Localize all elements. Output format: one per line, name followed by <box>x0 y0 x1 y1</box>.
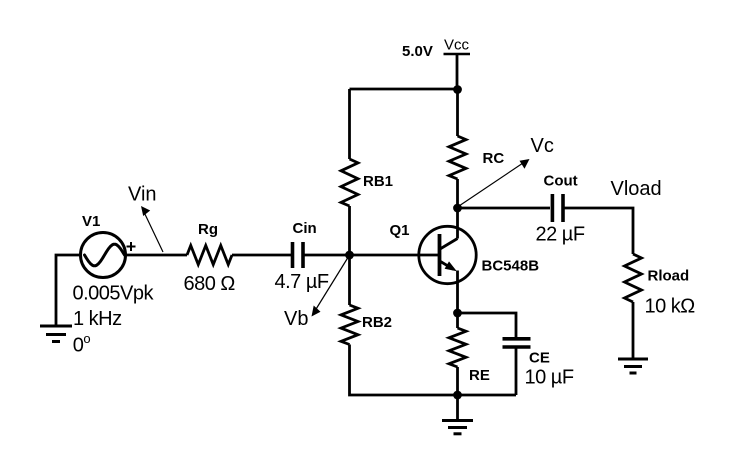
svg-text:10 µF: 10 µF <box>525 367 574 389</box>
svg-text:Vcc: Vcc <box>444 36 470 53</box>
svg-text:Cout: Cout <box>544 172 578 189</box>
svg-text:RE: RE <box>469 367 490 384</box>
svg-text:RC: RC <box>483 150 505 167</box>
svg-text:4.7 µF: 4.7 µF <box>275 271 329 293</box>
svg-text:Cin: Cin <box>293 220 317 237</box>
svg-text:0.005Vpk: 0.005Vpk <box>73 282 155 304</box>
svg-text:Vb: Vb <box>284 308 308 330</box>
svg-text:22 µF: 22 µF <box>536 224 585 246</box>
svg-text:Vin: Vin <box>128 184 157 206</box>
svg-text:680 Ω: 680 Ω <box>184 273 236 295</box>
svg-text:Vload: Vload <box>611 178 662 200</box>
svg-text:1 kHz: 1 kHz <box>73 308 122 330</box>
svg-text:Vc: Vc <box>531 135 554 157</box>
svg-text:Rg: Rg <box>198 221 218 238</box>
svg-text:Rload: Rload <box>648 268 690 285</box>
svg-text:Q1: Q1 <box>390 222 410 239</box>
svg-text:CE: CE <box>529 350 550 367</box>
svg-text:BC548B: BC548B <box>482 258 540 275</box>
svg-text:V1: V1 <box>82 213 100 230</box>
svg-text:10 kΩ: 10 kΩ <box>645 296 696 318</box>
svg-text:RB2: RB2 <box>362 314 392 331</box>
svg-text:5.0V: 5.0V <box>402 43 433 60</box>
svg-text:RB1: RB1 <box>363 173 393 190</box>
